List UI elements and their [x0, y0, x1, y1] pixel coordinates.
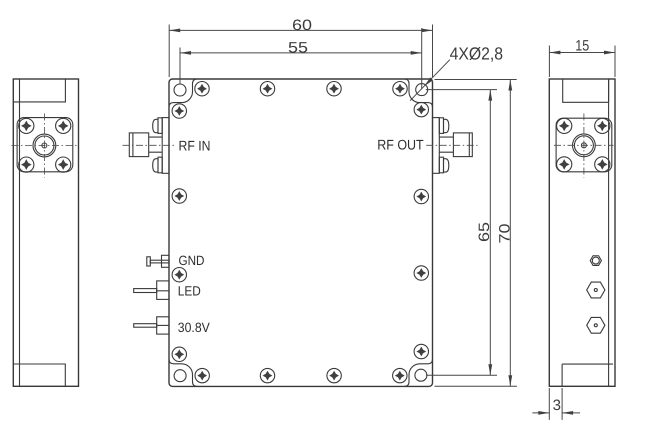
right edge screw 1 [414, 102, 428, 116]
right edge screw 3 [414, 266, 428, 280]
corner hole top-left [174, 84, 186, 96]
RF IN connector neck [149, 137, 163, 152]
right flange screw bottom-left [557, 157, 572, 172]
LED terminal [134, 281, 169, 300]
top edge screw 2 [260, 82, 274, 96]
top edge screw 3 [327, 82, 341, 96]
dimension 70 extension lines [435, 80, 517, 387]
svg-text:GND: GND [179, 253, 205, 268]
dimension 60 arrows [169, 29, 432, 33]
svg-text:LED: LED [178, 284, 201, 299]
svg-text:RF IN: RF IN [179, 138, 211, 154]
left connector centerlines [12, 114, 78, 178]
bottom edge screw 1 [195, 368, 209, 382]
svg-text:3: 3 [553, 397, 561, 414]
dimension 55 extension lines [180, 28, 422, 89]
svg-text:60: 60 [292, 17, 312, 34]
dimension 65 arrows [488, 90, 492, 376]
top edge screw 1 [195, 82, 209, 96]
left side view bottom step [13, 364, 65, 386]
dimension 70 line [509, 80, 511, 387]
corner pad bottom-left [169, 359, 198, 386]
RF IN centerline [123, 144, 177, 146]
svg-text:30.8V: 30.8V [178, 320, 210, 335]
hex nut LED [587, 282, 605, 298]
dimension 65 line [489, 90, 491, 376]
left edge screw 3 [172, 268, 186, 282]
left flange screw top-left [19, 118, 34, 133]
hole callout leader [410, 60, 450, 101]
RF OUT centerline [426, 144, 477, 146]
right edge screw 2 [414, 189, 428, 203]
right side view top recess [563, 79, 609, 102]
corner hole bottom-right [415, 369, 427, 381]
dimension 3 extension lines [549, 388, 562, 420]
top edge screw 4 [393, 82, 407, 96]
corner pad top-left [169, 79, 198, 107]
dimension 55 arrows [180, 51, 422, 55]
RF IN flange screw top [153, 118, 163, 134]
right side view bottom step [562, 364, 613, 386]
RF IN connector body [129, 133, 148, 157]
RF IN connector flange plate [162, 118, 169, 174]
corner hole top-right [416, 84, 428, 96]
corner pad bottom-right [404, 359, 433, 386]
left flange screw bottom-left [19, 157, 34, 172]
RF IN flange screw bottom [153, 157, 163, 173]
hex nut GND [590, 256, 601, 266]
left flange screw top-right [56, 118, 71, 133]
left edge screw 4 [172, 347, 186, 361]
dimension 15 line [549, 52, 615, 54]
bottom edge screw 4 [393, 368, 407, 382]
dimension 15 extension lines [549, 46, 615, 78]
RF OUT connector flange plate [433, 118, 440, 174]
hole callout leader arrow [423, 77, 433, 87]
dimension 60 line [169, 29, 432, 31]
right flange screw top-right [595, 118, 610, 133]
corner hole bottom-left [174, 370, 186, 382]
RF OUT flange screw bottom [439, 157, 449, 173]
svg-text:RF OUT: RF OUT [377, 137, 424, 153]
left edge screw 1 [172, 104, 186, 118]
dimension 3 arrows [538, 411, 573, 415]
corner pad top-right [404, 79, 433, 107]
dimension 65 extension lines [426, 90, 497, 376]
right connector centerlines [554, 114, 614, 178]
GND terminal [147, 255, 169, 267]
right flange screw bottom-right [595, 157, 610, 172]
left edge screw 2 [172, 189, 186, 203]
svg-text:15: 15 [575, 37, 589, 54]
RF OUT connector body [453, 133, 472, 157]
right flange screw top-left [557, 118, 572, 133]
right side view outline [549, 79, 615, 386]
dimension 15 arrows [549, 51, 615, 55]
30.8V terminal [134, 317, 169, 334]
bottom edge screw 2 [260, 368, 274, 382]
svg-text:70: 70 [496, 224, 513, 244]
svg-text:4XØ2,8: 4XØ2,8 [450, 43, 504, 63]
right side view wall line [608, 79, 610, 386]
left side view outline [13, 79, 78, 386]
svg-text:55: 55 [288, 39, 308, 56]
svg-text:65: 65 [476, 222, 493, 242]
dimension 55 line [180, 52, 422, 54]
left view SMA connector barrel [33, 134, 56, 157]
left side view wall line [19, 79, 21, 386]
main front view box [169, 79, 433, 386]
dimension 60 extension lines [169, 25, 432, 78]
right view SMA flange plate [556, 118, 612, 172]
RF OUT connector neck [439, 137, 453, 152]
right view SMA connector barrel [573, 134, 596, 157]
bottom edge screw 3 [327, 368, 341, 382]
left flange screw bottom-right [56, 157, 71, 172]
right edge screw 4 [414, 344, 428, 358]
left side view top recess [13, 79, 65, 102]
dimension 3 line [532, 412, 580, 414]
left view SMA flange plate [17, 118, 73, 172]
hex nut 30.8V [587, 317, 605, 333]
dimension 70 arrows [508, 80, 512, 387]
RF OUT flange screw top [439, 118, 449, 134]
